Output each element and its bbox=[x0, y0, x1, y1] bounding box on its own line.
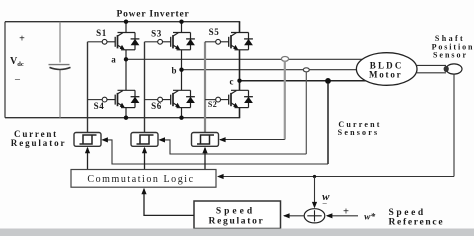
wire: S5 emitter to node c bbox=[239, 50, 241, 81]
wire: DC bus top rail bbox=[5, 21, 240, 23]
transistor S5 bbox=[216, 33, 253, 50]
commutation output to comparator 2 bbox=[144, 148, 146, 170]
node b bbox=[179, 68, 183, 72]
comparator U1 bbox=[74, 133, 101, 147]
node c bbox=[237, 79, 241, 83]
svg-text:Speed: Speed bbox=[389, 208, 426, 218]
commutation logic box bbox=[71, 170, 216, 188]
wire: S5 collector bbox=[239, 22, 241, 33]
wire: S3 emitter to node b bbox=[181, 50, 183, 70]
wire: S3 collector bbox=[181, 22, 183, 33]
capacitor C plates bbox=[49, 64, 70, 66]
svg-text:−: − bbox=[14, 74, 20, 86]
svg-text:S5: S5 bbox=[209, 27, 220, 37]
speed regulator box bbox=[194, 201, 281, 229]
sensor drop wire phase c bbox=[327, 83, 329, 164]
gate drive line leg 3 bbox=[204, 42, 206, 133]
wire: phase a line to motor bbox=[126, 58, 363, 60]
shaft position sensor bbox=[446, 64, 462, 74]
svg-text:b: b bbox=[171, 66, 176, 76]
comparator U2 bbox=[131, 133, 158, 147]
sensor feedback wire to comparator 3 bbox=[220, 139, 285, 141]
wire: S4 emitter to bottom rail bbox=[125, 108, 127, 118]
wire: S2 emitter to bottom rail bbox=[239, 108, 241, 118]
summing junction bbox=[304, 209, 325, 223]
junction bottom rail leg1 bbox=[124, 116, 128, 120]
svg-text:+: + bbox=[343, 207, 349, 218]
sensor feedback wire to comparator 2 bbox=[160, 140, 306, 154]
current sensor tap phase a bbox=[281, 57, 288, 62]
commutation output to comparator 3 bbox=[204, 148, 206, 170]
bottom scan band bbox=[0, 229, 474, 237]
transistor S3 bbox=[158, 33, 195, 50]
svg-text:S3: S3 bbox=[151, 29, 162, 39]
svg-text:Sensor: Sensor bbox=[433, 50, 468, 59]
motor shaft bbox=[417, 65, 446, 72]
transistor S4 bbox=[102, 90, 139, 107]
wire: speed reference into summer bbox=[327, 215, 358, 217]
current sensor tap phase b bbox=[303, 68, 309, 72]
svg-text:a: a bbox=[111, 55, 116, 65]
svg-text:Reference: Reference bbox=[389, 218, 445, 228]
transistor S1 bbox=[102, 33, 139, 50]
svg-text:Sensors: Sensors bbox=[338, 128, 380, 137]
svg-text:S2: S2 bbox=[208, 100, 217, 109]
sensor drop wire phase b bbox=[305, 72, 307, 154]
comparator U3 bbox=[192, 133, 219, 147]
transistor S2 bbox=[216, 90, 253, 107]
wire: node a to S4 collector bbox=[125, 59, 127, 90]
sensor drop wire phase a bbox=[284, 61, 286, 139]
svg-text:Commutation Logic: Commutation Logic bbox=[87, 174, 194, 185]
commutation output to comparator 1 bbox=[87, 148, 89, 170]
svg-text:c: c bbox=[230, 77, 234, 87]
svg-text:−: − bbox=[322, 199, 327, 209]
junction top rail leg1 bbox=[124, 20, 128, 24]
wire: node c to S2 collector bbox=[239, 81, 241, 91]
wire: S1 collector bbox=[125, 22, 127, 33]
source Vdc left wire bbox=[4, 22, 6, 118]
junction speed feedback bbox=[313, 175, 316, 178]
sensor feedback wire down right side bbox=[453, 74, 455, 177]
wire: DC bus bottom rail bbox=[5, 117, 240, 119]
wire: phase c line to motor bbox=[240, 80, 367, 82]
node a bbox=[124, 57, 128, 61]
gate drive line leg 1 bbox=[87, 42, 89, 133]
wire: S1 emitter to node a bbox=[125, 50, 127, 60]
wire: phase b line to motor bbox=[182, 69, 359, 71]
svg-text:Power Inverter: Power Inverter bbox=[116, 10, 189, 20]
svg-text:w*: w* bbox=[364, 212, 375, 223]
wire: node b to S6 collector bbox=[181, 70, 183, 91]
wire: summer output to speed regulator bbox=[284, 215, 304, 217]
svg-text:Speed: Speed bbox=[216, 207, 255, 217]
wire: w feedback into summer bbox=[314, 177, 316, 203]
speed feedback wire to commutation logic bbox=[219, 176, 455, 178]
BLDC motor M1 bbox=[356, 53, 417, 86]
svg-text:Motor: Motor bbox=[369, 70, 403, 80]
svg-text:Regulator: Regulator bbox=[11, 138, 67, 148]
transistor S6 bbox=[158, 90, 195, 107]
capacitor C wire bbox=[59, 22, 61, 118]
svg-text:Regulator: Regulator bbox=[209, 217, 265, 227]
svg-text:+: + bbox=[19, 34, 25, 45]
junction top rail leg2 bbox=[179, 20, 183, 24]
gate drive line leg 2 bbox=[144, 42, 146, 133]
current sensor tap phase c bbox=[325, 78, 331, 84]
junction bottom rail leg2 bbox=[179, 116, 183, 120]
svg-text:S6: S6 bbox=[151, 101, 162, 111]
svg-text:S1: S1 bbox=[96, 28, 107, 38]
svg-text:S4: S4 bbox=[94, 101, 105, 111]
sensor feedback wire to comparator 1 bbox=[103, 140, 328, 164]
wire: speed regulator output to commutation logic bbox=[144, 189, 194, 215]
wire: S6 emitter to bottom rail bbox=[181, 108, 183, 118]
